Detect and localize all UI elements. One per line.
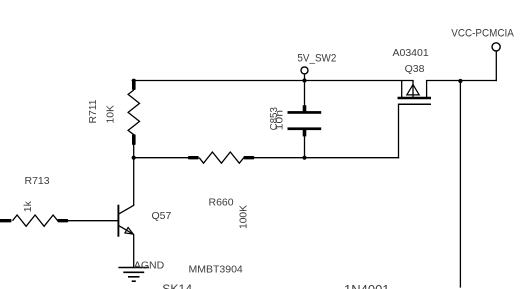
- svg-text:VCC-PCMCIA: VCC-PCMCIA: [451, 27, 514, 39]
- svg-text:Q57: Q57: [152, 210, 172, 222]
- svg-text:R660: R660: [209, 197, 234, 209]
- svg-text:MMBT3904: MMBT3904: [189, 264, 243, 276]
- svg-text:SK14: SK14: [162, 282, 192, 289]
- svg-text:5V_SW2: 5V_SW2: [297, 52, 336, 64]
- svg-text:10K: 10K: [105, 105, 117, 124]
- svg-text:A03401: A03401: [393, 47, 429, 59]
- svg-text:R713: R713: [25, 175, 50, 187]
- svg-text:100K: 100K: [238, 205, 250, 229]
- svg-text:AGND: AGND: [134, 260, 165, 272]
- svg-text:Q38: Q38: [405, 63, 425, 75]
- svg-text:1N4001: 1N4001: [344, 282, 390, 289]
- svg-text:R711: R711: [87, 99, 99, 123]
- svg-text:10n: 10n: [274, 110, 285, 131]
- svg-text:1k: 1k: [22, 200, 34, 212]
